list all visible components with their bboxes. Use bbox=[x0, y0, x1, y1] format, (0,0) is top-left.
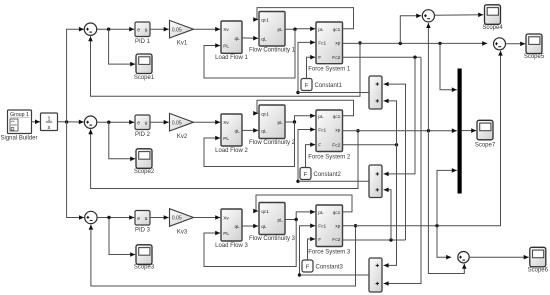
block Flow Continuity 1 bbox=[259, 12, 285, 47]
scope Scope1 bbox=[136, 54, 152, 74]
wire Fc2 row2 line bbox=[343, 144, 397, 146]
svg-text:Load Flow 3: Load Flow 3 bbox=[215, 243, 248, 249]
block Signal Builder bbox=[8, 110, 32, 134]
block Integrator 1/s bbox=[41, 113, 58, 131]
svg-text:Kv1: Kv1 bbox=[177, 41, 188, 47]
node pL junction row 2 bbox=[293, 120, 296, 123]
gain Kv1 0.05 bbox=[170, 20, 194, 38]
svg-text:xp: xp bbox=[335, 41, 340, 46]
block Load Flow 3 bbox=[221, 209, 242, 241]
svg-text:Xv: Xv bbox=[223, 120, 229, 126]
wire qL Load Flow 1 to Flow Continuity 1 bbox=[242, 36, 258, 41]
node Fc2 row1 branch bbox=[413, 56, 416, 59]
block Load Flow 2 bbox=[221, 114, 242, 146]
svg-text:qL: qL bbox=[234, 224, 240, 230]
node xp1 feedback junction bbox=[358, 41, 361, 44]
wire branch down to Sum3 bbox=[67, 122, 84, 220]
svg-text:0.05: 0.05 bbox=[172, 216, 182, 222]
wire Signal Builder to Integrator bbox=[32, 120, 41, 125]
block Load Flow 1 bbox=[221, 21, 242, 53]
scope Scope6 bbox=[530, 247, 546, 266]
svg-text:qL: qL bbox=[234, 128, 240, 134]
scope Scope7 bbox=[477, 120, 493, 140]
wire Fc2 row2 to Add3 top input bbox=[384, 145, 397, 268]
svg-text:Fc2: Fc2 bbox=[332, 143, 340, 149]
block PID 2 bbox=[135, 115, 150, 130]
wire Sum1 to PID 1 bbox=[97, 27, 134, 32]
sum S1 (error) bbox=[84, 23, 96, 35]
wire Fc1 input riser row 2 bbox=[298, 127, 315, 181]
svg-text:xp: xp bbox=[335, 129, 340, 134]
sum S4 (xp1-xp2) bbox=[422, 10, 434, 22]
node junction after Sum1 bbox=[107, 28, 110, 31]
wire Fc2 row3 to Add1 top input bbox=[384, 82, 406, 240]
gain Kv2 0.05 bbox=[170, 113, 194, 131]
svg-text:e: e bbox=[137, 216, 140, 222]
node junction after Sum3 bbox=[107, 216, 110, 219]
wire qL Load Flow 2 to Flow Continuity 2 bbox=[242, 128, 258, 133]
constant Constant1 F bbox=[301, 79, 312, 91]
svg-text:PID 2: PID 2 bbox=[135, 132, 151, 138]
svg-text:Load Flow 2: Load Flow 2 bbox=[215, 148, 248, 154]
svg-text:Constant3: Constant3 bbox=[316, 265, 344, 271]
wire Sum5 to Scope5 bbox=[506, 42, 526, 47]
node junction after Sum2 bbox=[107, 121, 110, 124]
wire Fc2 row2 to Add1 bottom input bbox=[384, 99, 397, 145]
node Fc1 junction on add output row 3 bbox=[298, 273, 301, 276]
wire Fc2 row1 to Add2 top input bbox=[384, 57, 415, 176]
svg-text:u: u bbox=[145, 28, 148, 34]
svg-text:s: s bbox=[48, 125, 51, 131]
wire xp3 to Sum6 left input bbox=[437, 226, 451, 260]
svg-text:qL: qL bbox=[261, 224, 267, 230]
wire xp2 output to Mux input 2 bbox=[343, 128, 457, 133]
wire PID 3 to Kv3 bbox=[150, 215, 169, 220]
svg-text:Kv3: Kv3 bbox=[177, 229, 188, 235]
wire xp1 position feedback to Sum1 bbox=[88, 36, 360, 96]
svg-text:xp: xp bbox=[335, 225, 340, 230]
node Fc1 junction on add output row 1 bbox=[296, 91, 299, 94]
svg-text:PL: PL bbox=[223, 231, 229, 237]
svg-text:pL: pL bbox=[277, 218, 283, 224]
svg-text:pL: pL bbox=[277, 120, 283, 126]
node Fc2 row3 branch bbox=[389, 238, 392, 241]
svg-text:Kv2: Kv2 bbox=[177, 134, 188, 140]
wire xp3 output line to Sum5 bottom bbox=[343, 51, 503, 226]
wire Constant2 to F input bbox=[306, 142, 316, 167]
scope Scope2 bbox=[136, 149, 152, 169]
wire pL to Force System 3 bbox=[285, 210, 315, 220]
wire xp1 up to Sum4 left input bbox=[400, 14, 421, 44]
svg-text:e: e bbox=[137, 28, 140, 34]
svg-text:Scope6: Scope6 bbox=[528, 268, 549, 274]
wire xp2 position feedback to Sum2 bbox=[88, 129, 358, 188]
wire qc1 feedback of row 3 bbox=[253, 195, 352, 213]
svg-text:PL: PL bbox=[223, 44, 229, 50]
svg-text:qc1: qc1 bbox=[333, 210, 341, 216]
wire qc1 feedback of row 1 bbox=[253, 8, 353, 29]
svg-text:Flow Continuity 2: Flow Continuity 2 bbox=[249, 140, 296, 146]
svg-text:qL: qL bbox=[261, 36, 267, 42]
block Force System 2 bbox=[316, 110, 343, 152]
svg-text:Force System 3: Force System 3 bbox=[308, 249, 351, 255]
node xp2 branch junction bbox=[427, 129, 430, 132]
wire Kv3 to Load Flow 3 bbox=[194, 215, 221, 220]
wire Sum4 to Scope4 bbox=[435, 13, 484, 18]
svg-text:Fc1: Fc1 bbox=[318, 128, 326, 134]
wire Fc2 row1 line bbox=[343, 56, 422, 58]
wire pL to Force System 2 bbox=[285, 114, 315, 123]
svg-text:PL: PL bbox=[223, 136, 229, 142]
wire Sum2 to PID 2 bbox=[97, 120, 134, 125]
sum S6 (xp3-xp2) bbox=[458, 252, 469, 263]
svg-text:pL: pL bbox=[277, 27, 283, 33]
svg-text:pL: pL bbox=[318, 27, 324, 33]
wire xp3 position feedback to Sum3 bbox=[89, 225, 356, 286]
block Add3 (flipped sum) bbox=[369, 258, 382, 292]
svg-text:qc1: qc1 bbox=[261, 111, 269, 117]
svg-text:Constant2: Constant2 bbox=[314, 172, 342, 178]
svg-text:Fc2: Fc2 bbox=[332, 237, 340, 243]
block Add2 (flipped sum) bbox=[369, 165, 382, 198]
node branch junction after Integrator bbox=[65, 120, 68, 123]
sum S3 (error) bbox=[85, 211, 97, 223]
wire Constant1 to F input bbox=[307, 55, 316, 79]
wire xp3 to Mux input 3 bbox=[437, 168, 457, 226]
block Add1 (flipped sum) bbox=[369, 76, 382, 109]
node xp2 feedback junction bbox=[356, 129, 359, 132]
wire xp1 output line to Sum4/Sum5 bbox=[343, 41, 488, 46]
block Flow Continuity 2 bbox=[259, 105, 285, 139]
svg-text:Scope3: Scope3 bbox=[134, 264, 155, 270]
wire xp2 riser to Sum4 bottom and down to Sum6 bottom bbox=[426, 23, 431, 131]
svg-text:Fc1: Fc1 bbox=[318, 40, 326, 46]
wire Add3 output to left bbox=[300, 274, 370, 276]
svg-text:u: u bbox=[145, 121, 148, 127]
svg-text:qc1: qc1 bbox=[261, 18, 269, 24]
wire Integrator to Sum2 bbox=[58, 120, 84, 125]
node Fc1 junction on add output row 2 bbox=[296, 180, 299, 183]
wire branch to Scope3 bbox=[109, 218, 135, 257]
scope Scope4 bbox=[485, 5, 501, 25]
node xp3 branch to mux/sum6 bbox=[435, 224, 438, 227]
wire Fc2 row3 to Add2 bottom input bbox=[384, 188, 391, 241]
svg-text:Force System 2: Force System 2 bbox=[308, 154, 351, 160]
wire branch to Scope1 bbox=[109, 29, 136, 66]
wire qc1 feedback of row 2 bbox=[253, 100, 353, 116]
wire Fc2 row1 to Add3 bottom input bbox=[384, 57, 421, 286]
svg-text:0.05: 0.05 bbox=[172, 120, 182, 126]
svg-text:Scope1: Scope1 bbox=[134, 75, 155, 81]
mux Mux xp signals bbox=[458, 69, 462, 194]
wire Fc2 row3 line bbox=[343, 239, 406, 241]
svg-text:qL: qL bbox=[234, 36, 240, 42]
svg-text:Fc1: Fc1 bbox=[318, 224, 326, 230]
scope Scope5 bbox=[526, 34, 542, 54]
svg-text:Signal Builder: Signal Builder bbox=[0, 136, 37, 142]
node pL junction row 3 bbox=[295, 218, 298, 221]
wire Fc1 input riser row 1 bbox=[298, 40, 315, 92]
block PID 1 bbox=[135, 22, 150, 37]
svg-text:Xv: Xv bbox=[223, 216, 229, 222]
svg-text:PID 3: PID 3 bbox=[135, 228, 151, 234]
svg-text:qc1: qc1 bbox=[333, 27, 341, 33]
wire Add1 output to left bbox=[298, 92, 369, 94]
block Flow Continuity 3 bbox=[259, 203, 285, 235]
svg-text:qc1: qc1 bbox=[261, 209, 269, 215]
wire Kv2 to Load Flow 2 bbox=[194, 120, 221, 125]
svg-text:e: e bbox=[137, 121, 140, 127]
wire Sum6 to Scope6 bbox=[469, 255, 529, 260]
svg-text:F: F bbox=[318, 55, 321, 61]
svg-text:Force System 1: Force System 1 bbox=[308, 67, 351, 73]
wire Kv1 to Load Flow 1 bbox=[194, 27, 221, 32]
constant Constant3 F bbox=[302, 260, 313, 272]
wire Add2 output to left bbox=[298, 180, 369, 182]
svg-text:Scope4: Scope4 bbox=[482, 25, 503, 31]
svg-text:F: F bbox=[318, 143, 321, 149]
svg-text:PID 1: PID 1 bbox=[135, 39, 151, 45]
svg-text:Scope7: Scope7 bbox=[475, 143, 496, 149]
block Force System 3 bbox=[316, 205, 343, 247]
block PID 3 bbox=[135, 211, 150, 226]
node pL junction row 1 bbox=[293, 28, 296, 31]
svg-text:u: u bbox=[145, 216, 148, 222]
svg-text:Flow Continuity 3: Flow Continuity 3 bbox=[249, 236, 296, 242]
wire PID 2 to Kv2 bbox=[150, 120, 169, 125]
svg-text:Scope2: Scope2 bbox=[134, 169, 155, 175]
wire pL feedback to PL of Load Flow 2 bbox=[204, 122, 295, 167]
svg-text:qL: qL bbox=[261, 128, 267, 134]
svg-text:F: F bbox=[318, 237, 321, 243]
node xp3 feedback junction bbox=[354, 224, 357, 227]
constant Constant2 F bbox=[300, 168, 311, 180]
svg-text:Constant1: Constant1 bbox=[315, 83, 343, 89]
wire Fc1 input riser row 3 bbox=[300, 223, 316, 275]
svg-text:Xv: Xv bbox=[223, 27, 229, 33]
scope Scope3 bbox=[136, 245, 152, 264]
wire Sum3 to PID 3 bbox=[97, 215, 134, 220]
node xp1 branch to mux bbox=[438, 42, 441, 45]
node xp1 branch to sum4 bbox=[399, 42, 402, 45]
svg-text:Scope5: Scope5 bbox=[524, 54, 545, 60]
sum S2 (error) bbox=[84, 116, 96, 128]
svg-text:Fc2: Fc2 bbox=[332, 55, 340, 61]
wire branch up to Sum1 bbox=[67, 27, 84, 122]
svg-text:qc1: qc1 bbox=[333, 114, 341, 120]
block Force System 1 bbox=[316, 22, 343, 64]
wire pL feedback to PL of Load Flow 3 bbox=[204, 220, 296, 267]
node Fc2 row2 branch bbox=[395, 143, 398, 146]
svg-text:pL: pL bbox=[318, 210, 324, 216]
sum S5 (xp1-xp3) bbox=[494, 38, 506, 50]
wire xp1 to Mux input 1 bbox=[440, 43, 457, 92]
wire branch to Scope2 bbox=[109, 122, 135, 161]
svg-text:pL: pL bbox=[318, 114, 324, 120]
svg-text:0.05: 0.05 bbox=[172, 27, 182, 33]
wire Mux output to Scope7 bbox=[462, 128, 477, 133]
svg-text:Load Flow 1: Load Flow 1 bbox=[215, 55, 248, 61]
wire pL feedback to PL of Load Flow 1 bbox=[204, 29, 295, 78]
wire qL Load Flow 3 to Flow Continuity 3 bbox=[242, 224, 258, 229]
wire pL to Force System 1 bbox=[285, 27, 315, 32]
wire PID 1 to Kv1 bbox=[150, 27, 169, 32]
wire Constant3 to F input bbox=[308, 237, 316, 260]
gain Kv3 0.05 bbox=[170, 209, 194, 227]
svg-text:Flow Continuity 1: Flow Continuity 1 bbox=[249, 48, 296, 54]
